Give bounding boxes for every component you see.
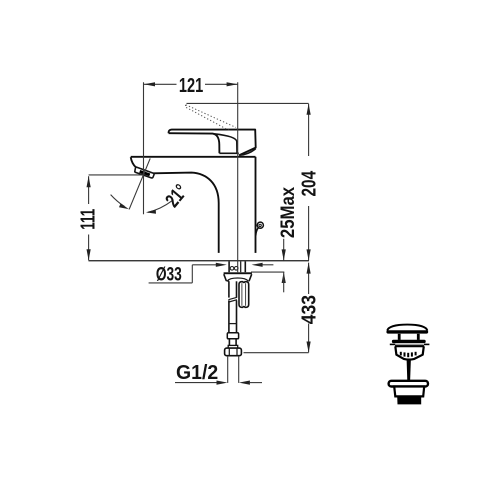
dimension 121 line left segment	[144, 83, 177, 85]
dotted raised lever upper line	[186, 105, 236, 128]
svg-text:433: 433	[298, 295, 320, 324]
dimension 25Max up arrow	[282, 272, 286, 283]
shank left edge	[228, 261, 230, 272]
dimension 121 line right segment	[205, 83, 238, 85]
supply tube upper left edge	[228, 281, 230, 297]
shank circle left	[230, 267, 234, 271]
pop-up waste base	[397, 396, 421, 404]
G1/2 right arrow tail	[250, 382, 262, 384]
hose inner line 1	[241, 283, 243, 306]
extension line left of 121	[143, 82, 145, 214]
clamp fitting top bar	[224, 272, 252, 274]
dotted raised lever tip	[184, 105, 187, 108]
angle 21 water direction line	[129, 158, 150, 209]
deck counter line	[89, 260, 310, 262]
extension line right of 121	[237, 82, 239, 272]
faucet spout front tip curve	[131, 157, 137, 167]
angle 21 right arc arrow	[146, 210, 156, 214]
tube collar	[228, 345, 238, 348]
pop-up waste neck right	[417, 334, 420, 340]
svg-text:25Max: 25Max	[277, 187, 298, 238]
shank right edge	[244, 261, 246, 272]
dimension 121 right arrow	[227, 82, 238, 86]
tube narrow section right	[235, 339, 237, 346]
lever rear wedge curve	[240, 149, 256, 156]
svg-text:Ø33: Ø33	[156, 263, 182, 285]
dimension 433 top arrow	[307, 263, 311, 274]
clamp fitting left side	[224, 274, 227, 281]
clamp fitting bottom right	[248, 280, 251, 283]
svg-text:121: 121	[179, 74, 204, 97]
cartridge collar line	[219, 152, 238, 154]
pop-up waste cup slots	[400, 352, 417, 357]
pop-up waste cup	[395, 346, 424, 359]
lever handle bottom edge and neck	[169, 133, 220, 153]
dimension 25Max down arrow	[282, 249, 286, 260]
G1/2 right arrow	[239, 381, 250, 385]
angle 21 right arc	[148, 201, 173, 213]
dimension 111 top arrow	[87, 176, 91, 187]
dimension O33 leader vertical	[191, 265, 193, 283]
pop-up waste neck left	[398, 334, 401, 340]
tube sleeve	[227, 333, 238, 339]
pop-up waste flange	[392, 340, 426, 343]
dimension O33 line left	[192, 264, 216, 266]
lever inner neck line	[214, 134, 237, 153]
faucet body right edge	[255, 157, 257, 253]
pop-up rod knob	[257, 222, 263, 228]
dimension 25Max line	[283, 239, 285, 261]
dimension 111 line lower segment	[88, 235, 90, 261]
dotted raised lever lower line	[186, 107, 230, 130]
dimension 121 left arrow	[144, 82, 155, 86]
tube break line 2	[228, 300, 237, 302]
G1/2 extension line right	[238, 356, 240, 383]
G1/2 left arrow	[217, 381, 228, 385]
clamp fitting right side	[249, 274, 252, 281]
hex nut	[225, 348, 242, 356]
hose inner line 2	[245, 283, 247, 306]
dimension 204 line upper segment	[308, 104, 310, 156]
pop-up waste stem	[407, 359, 411, 381]
tube break line 1	[228, 297, 237, 299]
extension line bottom of 433	[244, 352, 309, 354]
dimension O33 right arrow tail	[262, 264, 273, 266]
pop-up waste cap dome	[387, 325, 427, 331]
G1/2 extension line left	[227, 356, 229, 383]
pop-up rod tail	[256, 228, 258, 236]
supply tube upper right edge	[236, 281, 238, 297]
clamp fitting bottom left	[226, 280, 229, 282]
lever handle top and right edge	[169, 130, 256, 156]
extension line of 25Max	[251, 271, 284, 273]
pop-up waste body	[394, 387, 424, 397]
aerator black insert	[139, 170, 150, 176]
pop-up waste lower flange	[389, 381, 428, 387]
dimension O33 left arrow	[216, 263, 227, 267]
pop-up waste washer tick left	[390, 343, 396, 345]
svg-text:G1/2: G1/2	[176, 361, 218, 384]
pop-up waste washer band	[396, 344, 424, 347]
hex nut facet left	[228, 348, 230, 355]
tube joint line	[229, 323, 237, 325]
shank inner line	[240, 261, 242, 272]
dimension 204 bottom arrow	[307, 249, 311, 260]
clamp fitting inner arch	[227, 278, 248, 281]
aerator outline	[135, 167, 154, 178]
dimension 204 line lower segment	[308, 206, 310, 260]
pop-up rod knob center	[259, 224, 261, 226]
angle 21 left arc	[111, 195, 125, 207]
extension line top of 204	[187, 102, 309, 104]
G1/2 left arrow tail underline	[175, 382, 217, 384]
shank circle right	[234, 267, 238, 271]
svg-text:204: 204	[297, 171, 319, 197]
dimension 433 line lower segment	[308, 324, 310, 353]
dimension 25Max up arrow tail	[283, 272, 285, 292]
dimension 433 line upper segment	[308, 263, 310, 294]
supply tube lower right edge	[236, 300, 238, 332]
hex nut facet right	[236, 348, 238, 355]
dimension 111 bottom arrow	[87, 249, 91, 260]
dimension 204 top arrow	[307, 104, 311, 115]
svg-text:111: 111	[77, 209, 99, 230]
extension line top of 111	[89, 174, 144, 176]
faucet body top edge	[131, 156, 256, 158]
supply tube lower left edge	[228, 300, 230, 332]
pop-up waste washer tick right	[424, 343, 430, 345]
dimension 111 line upper segment	[88, 176, 90, 204]
dimension O33 right arrow	[252, 263, 263, 267]
faucet spout underside and column left edge	[153, 173, 219, 253]
dimension O33 leader underline	[149, 282, 193, 284]
tube narrow section left	[228, 339, 230, 346]
braided hose outline	[239, 282, 249, 308]
pop-up waste cap bottom band	[386, 330, 428, 333]
angle 21 left arc arrow	[119, 203, 129, 209]
dimension 433 bottom arrow	[307, 342, 311, 353]
